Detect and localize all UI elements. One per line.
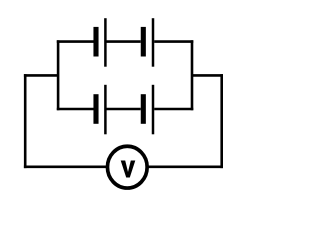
- wire: left outer vertical: [24, 74, 27, 168]
- battery B2 negative plate (short thick): [141, 27, 146, 57]
- battery B1 negative plate (short thick): [93, 27, 98, 57]
- wire: bottom right segment from voltmeter: [148, 166, 223, 169]
- wire: bottom left segment to voltmeter: [24, 166, 106, 169]
- wire top branch: node A to cell B1: [57, 40, 94, 43]
- battery B1 positive plate (long thin): [104, 18, 107, 66]
- wire middle branch: between cell B3 and cell B4: [107, 108, 141, 111]
- battery B4 positive plate (long thin): [152, 85, 155, 135]
- wire: right stub from node B to outer loop: [192, 74, 223, 77]
- voltmeter M1 body: [107, 146, 147, 188]
- wire middle branch: node A to cell B3: [57, 108, 94, 111]
- battery B3 negative plate (short thick): [93, 94, 98, 124]
- wire: left junction vertical joining top and middle branches (node A): [57, 40, 60, 110]
- wire middle branch: cell B4 to node B: [154, 108, 193, 111]
- wire: left stub from node A to outer loop: [24, 74, 58, 77]
- wire: right junction vertical joining top and middle branches (node B): [191, 40, 194, 110]
- wire: right outer vertical: [220, 74, 223, 168]
- wire top branch: cell B2 to node B: [154, 40, 193, 43]
- battery B3 positive plate (long thin): [104, 85, 107, 135]
- battery B4 negative plate (short thick): [141, 94, 146, 124]
- wire top branch: between cell B1 and cell B2: [107, 40, 141, 43]
- voltmeter M1 label "V": [121, 161, 136, 178]
- battery B2 positive plate (long thin): [152, 18, 155, 66]
